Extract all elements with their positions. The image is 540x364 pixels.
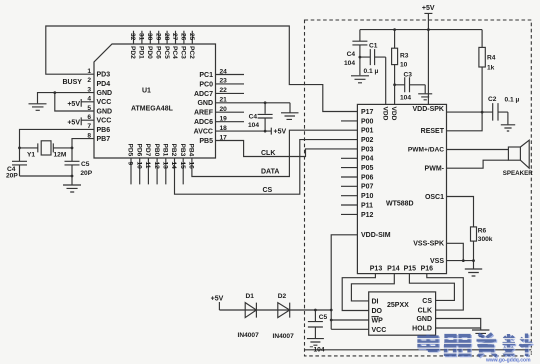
- svg-text:P02: P02: [361, 137, 374, 144]
- svg-text:VSS: VSS: [430, 258, 444, 265]
- svg-text:VCC: VCC: [372, 327, 387, 334]
- wire U1 pin3 GND to ground: [38, 93, 95, 104]
- svg-text:PC2: PC2: [188, 46, 195, 59]
- ground 25PXX: [472, 330, 489, 337]
- svg-text:ADC7: ADC7: [194, 91, 213, 98]
- svg-text:CS: CS: [422, 298, 432, 305]
- svg-text:10: 10: [400, 62, 408, 69]
- IC U2 WT588D body: [357, 104, 446, 273]
- wire PWM+/DAC to speaker: [447, 149, 509, 151]
- crystal Y1 12M: [20, 143, 73, 152]
- svg-text:12: 12: [153, 162, 160, 170]
- svg-text:P04: P04: [361, 156, 374, 163]
- svg-text:13: 13: [162, 162, 169, 170]
- wire P16 to 25PXX CLK: [427, 274, 464, 311]
- capacitor C5 104: [308, 310, 323, 338]
- svg-text:IN4007: IN4007: [238, 332, 260, 339]
- capacitor C3 104: [395, 77, 426, 93]
- svg-text:PB2: PB2: [170, 144, 177, 157]
- svg-text:D2: D2: [278, 293, 287, 300]
- svg-text:PWM-: PWM-: [425, 166, 445, 173]
- wire P15 to 25PXX CS: [409, 274, 454, 301]
- svg-text:104: 104: [248, 122, 259, 129]
- ground VSS: [465, 269, 482, 276]
- svg-text:6: 6: [87, 114, 91, 121]
- svg-text:5: 5: [87, 105, 91, 112]
- svg-text:20P: 20P: [6, 172, 18, 179]
- ground C3: [418, 94, 432, 100]
- svg-text:+5V: +5V: [67, 120, 80, 127]
- wire 25PXX VCC tie: [331, 328, 369, 330]
- svg-text:P00: P00: [361, 118, 374, 125]
- svg-text:300k: 300k: [478, 236, 493, 243]
- svg-text:P03: P03: [361, 146, 374, 153]
- svg-text:CLK: CLK: [418, 308, 432, 315]
- ground C2: [501, 125, 515, 131]
- svg-text:32: 32: [129, 33, 136, 41]
- svg-text:22: 22: [220, 87, 228, 94]
- svg-text:104: 104: [344, 60, 355, 67]
- svg-text:28: 28: [163, 33, 170, 41]
- svg-text:17: 17: [220, 134, 228, 141]
- wire VSS-SPK: [447, 243, 464, 260]
- svg-text:RESET: RESET: [421, 128, 445, 135]
- wire U1 pin18 AVCC +5V: [216, 128, 272, 135]
- svg-text:PB5: PB5: [199, 138, 213, 145]
- svg-text:21: 21: [220, 97, 228, 104]
- svg-text:BUSY: BUSY: [63, 79, 83, 86]
- svg-text:C3: C3: [404, 71, 413, 78]
- svg-text:VDD-SIM: VDD-SIM: [361, 232, 391, 239]
- svg-text:GND: GND: [416, 316, 432, 323]
- wire +5V rail: [360, 29, 482, 31]
- svg-text:Y1: Y1: [27, 151, 35, 158]
- wire 25PXX GND to ground: [436, 319, 481, 330]
- junction WP tie: [330, 319, 333, 322]
- svg-text:PC6: PC6: [154, 46, 161, 59]
- junction R3 top on +5V rail: [393, 28, 396, 31]
- svg-text:P07: P07: [361, 184, 374, 191]
- junction crystal right node: [71, 147, 74, 150]
- wire 25PXX WP tie: [331, 319, 369, 321]
- wire VDD-SIM to VCC of 25PXX: [331, 235, 357, 329]
- svg-text:2: 2: [87, 77, 91, 84]
- junction R3 bottom / C3 node: [393, 83, 396, 86]
- svg-text:26: 26: [180, 33, 187, 41]
- svg-text:GND: GND: [197, 100, 213, 107]
- svg-text:+5V: +5V: [211, 296, 224, 303]
- ground crystal: [63, 185, 81, 192]
- junction crystal left node: [18, 147, 21, 150]
- svg-text:DATA: DATA: [261, 168, 279, 175]
- svg-text:15: 15: [179, 162, 186, 170]
- svg-text:CS: CS: [263, 187, 273, 194]
- wire U1 pin24 PC1 stub: [216, 74, 245, 76]
- svg-text:VCC: VCC: [97, 99, 112, 106]
- svg-text:4: 4: [87, 96, 91, 103]
- svg-text:VCC: VCC: [97, 118, 112, 125]
- wire VDD-SPK right pin to node: [447, 111, 483, 113]
- svg-text:20: 20: [220, 106, 228, 113]
- svg-text:30: 30: [146, 33, 153, 41]
- svg-text:+5V: +5V: [67, 101, 80, 108]
- svg-text:P12: P12: [361, 212, 374, 219]
- svg-text:AVCC: AVCC: [194, 129, 213, 136]
- wire DATA from U1 pin16 PB4 to WT588D P01: [192, 130, 358, 176]
- svg-text:104: 104: [400, 95, 411, 102]
- svg-text:20P: 20P: [80, 170, 92, 177]
- junction C4/C1 node: [359, 56, 362, 59]
- ground U1 right: [281, 113, 299, 120]
- junction R6 bottom on VSS wire: [472, 259, 475, 262]
- svg-text:104: 104: [314, 346, 325, 353]
- svg-text:0.1 µ: 0.1 µ: [505, 97, 520, 104]
- junction VDD-SIM vertical on +5V feed: [330, 309, 333, 312]
- ground U1 left: [29, 104, 47, 111]
- svg-text:C5: C5: [319, 314, 328, 321]
- svg-text:PB6: PB6: [97, 127, 111, 134]
- svg-text:AREF: AREF: [194, 110, 214, 117]
- wire U1 pin22 ADC7 stub: [216, 92, 245, 94]
- wire diode supply line: [219, 309, 331, 311]
- svg-text:9: 9: [127, 162, 134, 166]
- dashed module border: [305, 20, 532, 356]
- wire U1 pin1 PD3 BUSY net to WT588D P17: [46, 26, 358, 112]
- svg-text:25PXX: 25PXX: [387, 302, 409, 309]
- svg-text:+5V: +5V: [422, 5, 435, 12]
- svg-text:24: 24: [220, 68, 228, 75]
- wire module bottom rail: [305, 349, 532, 351]
- svg-text:P11: P11: [361, 202, 373, 209]
- svg-text:SPEAKER: SPEAKER: [503, 170, 533, 177]
- svg-text:11: 11: [144, 162, 151, 169]
- wire 25PXX HOLD to ground: [436, 327, 481, 329]
- svg-text:PC4: PC4: [171, 46, 178, 59]
- svg-text:PB4: PB4: [188, 144, 195, 157]
- svg-text:C1: C1: [369, 42, 378, 49]
- ground C5: [307, 339, 324, 346]
- wire CS from U1 pin14 PB2 to WT588D P02: [175, 140, 358, 195]
- svg-text:PD4: PD4: [97, 81, 111, 88]
- junction crystal ground node: [71, 175, 74, 178]
- wire crystal bottom: [20, 176, 73, 185]
- svg-text:PD2: PD2: [129, 46, 136, 59]
- junction VSS-SPK on VSS wire: [462, 259, 465, 262]
- svg-text:PB1: PB1: [162, 144, 169, 157]
- svg-text:C4: C4: [249, 114, 258, 121]
- svg-text:PWM+/DAC: PWM+/DAC: [408, 147, 444, 154]
- svg-text:18: 18: [220, 125, 228, 132]
- svg-text:PC5: PC5: [163, 46, 170, 59]
- svg-text:19: 19: [220, 116, 228, 123]
- svg-text:VDD: VDD: [382, 107, 389, 121]
- svg-text:PD5: PD5: [127, 144, 134, 157]
- watermark 电器资料: [414, 334, 536, 358]
- svg-text:3: 3: [87, 86, 91, 93]
- svg-text:DI: DI: [372, 298, 379, 305]
- svg-text:12M: 12M: [54, 151, 67, 158]
- svg-text:PB7: PB7: [97, 136, 111, 143]
- svg-text:10: 10: [135, 162, 142, 170]
- svg-text:HOLD: HOLD: [412, 326, 432, 333]
- svg-text:OSC1: OSC1: [425, 194, 444, 201]
- svg-text:P06: P06: [361, 174, 374, 181]
- svg-text:www.go-gddq.com: www.go-gddq.com: [485, 357, 531, 363]
- svg-text:PB0: PB0: [153, 144, 160, 157]
- wire P13 to 25PXX DO: [342, 274, 375, 311]
- svg-text:IN4007: IN4007: [273, 333, 295, 340]
- glyph liao: [503, 334, 533, 357]
- svg-text:ATMEGA48L: ATMEGA48L: [131, 106, 174, 113]
- svg-text:0.1 µ: 0.1 µ: [364, 68, 379, 75]
- wire RESET to R4/C2 node: [447, 112, 483, 131]
- svg-text:R4: R4: [487, 54, 496, 61]
- capacitor C1 0.1u: [360, 49, 386, 104]
- power +5V top terminal: [424, 13, 432, 104]
- svg-text:23: 23: [220, 78, 228, 85]
- junction +5V drop on rail: [427, 28, 430, 31]
- capacitor C5 20P: [65, 161, 80, 176]
- wire OSC1 to R6: [447, 197, 474, 227]
- diode D2 IN4007: [278, 303, 290, 318]
- svg-text:C4: C4: [347, 51, 356, 58]
- wire U1 pin20 AREF stub: [216, 111, 245, 113]
- U1 top pin stubs 32..25: [134, 31, 193, 44]
- junction C4 top at GND pin21: [264, 101, 267, 104]
- wire U1 pin5 GND tie: [55, 93, 94, 111]
- svg-text:GND: GND: [97, 108, 113, 115]
- svg-text:29: 29: [154, 33, 161, 41]
- svg-text:P17: P17: [361, 109, 374, 116]
- svg-text:D1: D1: [246, 293, 255, 300]
- svg-text:CLK: CLK: [261, 150, 275, 157]
- svg-text:P16: P16: [421, 266, 434, 273]
- junction U1 GND pins tie: [53, 91, 56, 94]
- svg-text:25: 25: [188, 33, 195, 41]
- svg-text:U1: U1: [142, 88, 151, 95]
- resistor R4 1k: [481, 30, 483, 113]
- svg-text:GND: GND: [97, 90, 113, 97]
- glyph dian: [419, 335, 438, 351]
- svg-text:PC3: PC3: [180, 46, 187, 59]
- junction C4 bottom at AVCC: [264, 130, 267, 133]
- wire CLK from U1 pin17 PB5 to WT588D P03: [216, 141, 358, 157]
- capacitor C4 20P: [12, 161, 27, 176]
- svg-text:P14: P14: [387, 266, 400, 273]
- svg-text:VDD: VDD: [390, 107, 397, 121]
- wire U1 pin6 VCC +5V: [81, 117, 94, 125]
- svg-text:P05: P05: [361, 165, 374, 172]
- speaker SPEAKER: [508, 147, 520, 160]
- svg-text:PD7: PD7: [144, 144, 151, 157]
- IC U1 ATMEGA48L body: [94, 44, 216, 158]
- overline on WP: [372, 316, 379, 318]
- wire U1 pin23 PC0 stub: [216, 83, 245, 85]
- svg-text:VDD-SPK: VDD-SPK: [412, 106, 444, 113]
- diode D1 IN4007: [245, 303, 256, 318]
- wire VSS to ground: [447, 261, 474, 269]
- svg-text:7: 7: [87, 123, 91, 130]
- svg-text:PD6: PD6: [135, 144, 142, 157]
- svg-text:14: 14: [170, 162, 177, 170]
- svg-text:16: 16: [188, 162, 195, 170]
- resistor R6 300k: [471, 227, 477, 241]
- wire U1 pin8 PB7 to crystal: [72, 139, 94, 162]
- svg-text:P10: P10: [361, 193, 374, 200]
- watermark stripes: [414, 339, 536, 353]
- svg-text:C2: C2: [488, 96, 497, 103]
- U1 bottom pin stubs 9,10,11,12,13,15: [131, 158, 183, 184]
- WT588D left pin stubs: [341, 121, 357, 214]
- wire U1 pin4 VCC +5V: [81, 99, 94, 107]
- svg-text:R6: R6: [478, 228, 487, 235]
- junction C5 on +5V feed: [314, 309, 317, 312]
- svg-text:PD1: PD1: [138, 46, 145, 59]
- svg-text:P13: P13: [370, 266, 383, 273]
- power +5V diode feed terminal: [218, 302, 220, 310]
- wire U1 pin7 PB6 to crystal: [20, 129, 95, 161]
- svg-text:P15: P15: [404, 266, 417, 273]
- glyph qi: [444, 336, 471, 355]
- wire P14 to 25PXX DI: [351, 274, 394, 301]
- svg-text:WT588D: WT588D: [386, 201, 414, 208]
- svg-text:VSS-SPK: VSS-SPK: [413, 241, 444, 248]
- wire PWM- to speaker: [447, 160, 509, 168]
- svg-text:C5: C5: [81, 161, 90, 168]
- capacitor C2 0.1u: [482, 103, 508, 124]
- svg-text:PC0: PC0: [199, 81, 213, 88]
- svg-text:PC1: PC1: [199, 72, 213, 79]
- svg-text:ADC6: ADC6: [194, 119, 213, 126]
- svg-text:8: 8: [87, 132, 91, 139]
- capacitor C4 104 (near U1): [258, 103, 273, 131]
- svg-text:WP: WP: [372, 318, 384, 325]
- svg-text:PD0: PD0: [146, 46, 153, 59]
- wire U1 pin21 GND to ground: [216, 103, 291, 113]
- junction R4/C2/RESET node: [481, 111, 484, 114]
- resistor R3 10: [394, 30, 396, 105]
- svg-text:27: 27: [171, 33, 178, 41]
- IC U3 25PXX body: [369, 292, 436, 335]
- svg-text:PD3: PD3: [97, 72, 111, 79]
- svg-text:31: 31: [138, 33, 145, 41]
- svg-text:1k: 1k: [487, 65, 495, 72]
- wire U1 pin19 ADC6 stub: [216, 121, 245, 123]
- svg-text:1: 1: [87, 68, 91, 75]
- svg-text:DO: DO: [372, 308, 383, 315]
- svg-text:PB3: PB3: [179, 144, 186, 157]
- glyph zi: [477, 334, 497, 357]
- svg-text:+5V: +5V: [274, 129, 287, 136]
- svg-text:R3: R3: [400, 52, 409, 59]
- ground C4 module: [351, 76, 369, 83]
- capacitor C4 104 (module): [352, 30, 367, 76]
- svg-text:P01: P01: [361, 128, 374, 135]
